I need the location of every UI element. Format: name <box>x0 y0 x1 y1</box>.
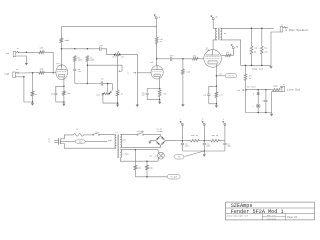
wire lineout bottom rail <box>246 112 272 114</box>
wire V1a plate <box>60 43 62 67</box>
capsule to bias point <box>225 74 236 78</box>
wire capsule out <box>85 140 107 142</box>
wiper arrow V1b grid <box>133 72 136 74</box>
wire fuse to switch <box>84 134 93 136</box>
capacitor C1 25uF bypass <box>54 86 57 102</box>
wire to V1a grid <box>44 72 56 74</box>
svg-text:100: 100 <box>138 167 141 169</box>
wire capsule diagonal <box>184 151 205 157</box>
ground lineout <box>270 113 273 117</box>
wire node A down <box>156 19 158 38</box>
junction cathode gnd <box>63 101 65 103</box>
label C1 <box>51 94 54 96</box>
node flag B+ OT <box>211 15 219 20</box>
tube V1b 12AX7 <box>151 66 163 79</box>
capacitor C5 25uF <box>146 93 149 100</box>
resistor R10 220k grid leak <box>182 59 185 105</box>
label R15 <box>264 48 268 54</box>
ground V1a cathode <box>62 102 65 106</box>
transformer T1 core <box>117 134 120 158</box>
wire V1b cath bottom <box>147 99 160 101</box>
wire HV top <box>120 133 137 135</box>
wire B+ to OT <box>213 20 217 29</box>
label R19 <box>150 167 153 169</box>
wire R15 down <box>261 54 263 65</box>
ground tone <box>116 105 119 108</box>
label D5 <box>253 94 254 96</box>
resistor R8 tap2 <box>86 56 89 62</box>
wire OT primary bottom <box>213 39 217 42</box>
title small date <box>266 217 276 220</box>
junction plate node A1 <box>61 48 63 50</box>
wiper arrow tone <box>118 70 122 72</box>
resistor R18 100 humdinger <box>134 150 137 177</box>
svg-text:22n: 22n <box>99 44 102 47</box>
node flag A2 <box>222 118 226 141</box>
label R11 <box>193 56 196 58</box>
capsule psu gnd <box>174 155 184 159</box>
wire after C2 <box>101 49 114 55</box>
wire R1 to grid node <box>44 52 53 72</box>
label C10 <box>207 143 211 147</box>
label VR1b <box>121 56 124 58</box>
svg-text:J1: J1 <box>16 48 18 50</box>
junction humdinger <box>146 176 148 178</box>
svg-text:1k5: 1k5 <box>67 93 70 95</box>
svg-text:10k 2W: 10k 2W <box>191 135 198 137</box>
label R18 <box>138 167 141 169</box>
capacitor C7 bypass <box>207 94 210 104</box>
svg-text:Line Out: Line Out <box>287 87 301 91</box>
ground R10 <box>181 104 184 107</box>
label C3 <box>78 69 81 73</box>
resistor R13 NFB <box>221 48 233 56</box>
wire lineout <box>246 89 273 91</box>
wire OT sec top <box>220 27 273 29</box>
wire heater bottom <box>120 158 158 162</box>
svg-text:C: C <box>180 119 181 121</box>
label R20 <box>191 135 198 137</box>
svg-text:22n: 22n <box>170 54 173 57</box>
capacitor C10 filter <box>203 141 206 151</box>
junction R3 bottom <box>32 101 34 103</box>
resistor R12 470 cathode <box>215 86 218 104</box>
label R21 <box>212 135 219 137</box>
wire V1a cathode <box>63 77 65 86</box>
label R6 22k <box>159 38 163 43</box>
ground V1b cathode <box>158 100 161 105</box>
junction J1 shorting contact <box>26 52 28 54</box>
node flag NFB <box>231 44 239 49</box>
ground 6V6 cathode <box>215 104 218 108</box>
label HV <box>122 140 126 142</box>
label V1b <box>150 61 153 64</box>
label R4 100k <box>64 39 70 42</box>
svg-text:120V: 120V <box>108 140 112 142</box>
wire mains live <box>60 135 73 139</box>
resistor R11 grid stopper <box>192 57 198 60</box>
junction psu1 <box>182 140 184 142</box>
svg-text:Page #1: Page #1 <box>287 216 297 219</box>
wire cathode bottom <box>56 101 64 103</box>
wire tone wiper <box>110 84 113 93</box>
wire OT sec bottom <box>220 40 240 66</box>
ground speaker return <box>269 66 272 69</box>
svg-text:5k6: 5k6 <box>193 56 196 58</box>
label C4 5n <box>101 77 103 80</box>
capsule mains <box>75 140 85 143</box>
pot VR1 volume <box>114 53 121 55</box>
diode D6 LED clamp <box>256 104 260 113</box>
label PT <box>115 131 118 134</box>
wire tone node down <box>107 84 109 93</box>
wire speaker sleeve <box>271 32 280 65</box>
wire heater top <box>120 149 158 151</box>
label R14 <box>254 48 257 54</box>
junction tone bottom <box>117 102 119 104</box>
label 120VAC <box>108 140 112 142</box>
capacitor C2 22n coupling <box>100 47 102 51</box>
label VR1a <box>112 56 117 59</box>
label C2 22n <box>99 44 102 47</box>
svg-text:1k5: 1k5 <box>163 93 166 95</box>
label J3 <box>281 25 283 27</box>
junction V1b cathode <box>159 88 161 90</box>
wire R14 down <box>251 54 253 65</box>
resistor R7 tap1 upper <box>73 56 76 62</box>
speaker jack J3 <box>280 27 288 32</box>
label 8 ohm speaker <box>285 28 309 32</box>
svg-text:IEC: IEC <box>79 141 82 143</box>
label wiper <box>128 73 129 75</box>
resistor R21 10k <box>211 139 220 142</box>
wire lower tone <box>75 83 101 85</box>
junction V1a cathode <box>63 86 65 88</box>
transformer T2 OT primary <box>216 28 217 40</box>
resistor R19 100 humdinger <box>146 161 149 177</box>
junction dummy tap <box>245 65 247 67</box>
wire tone feed <box>87 65 122 71</box>
wire 6V6 cath branch <box>209 86 217 94</box>
resistor R9 1k5 <box>158 89 161 100</box>
junction cath gnd2 <box>159 99 161 101</box>
resistor R3 1M grid leak <box>31 73 34 102</box>
svg-text:L: L <box>253 106 254 108</box>
wire mains return <box>60 144 116 149</box>
svg-text:25V: 25V <box>142 95 145 97</box>
svg-text:P5: P5 <box>178 157 180 159</box>
svg-text:25u: 25u <box>51 94 54 96</box>
title text SZEAmps <box>231 203 253 209</box>
title small drawn <box>226 214 248 217</box>
svg-text:J3: J3 <box>281 25 283 27</box>
resistor R15 dummy load <box>260 46 263 54</box>
svg-text:100k: 100k <box>78 59 82 61</box>
svg-text:Vol: Vol <box>121 56 124 58</box>
svg-text:D: D <box>253 94 254 96</box>
node flag B <box>202 119 206 141</box>
wire humdinger bottom <box>135 176 167 178</box>
wire tone pot down <box>103 94 118 103</box>
junction 6V6 gnd <box>216 103 218 105</box>
svg-text:220k: 220k <box>186 71 190 73</box>
capacitor C6 22n coupling <box>170 57 172 61</box>
svg-text:8R2: 8R2 <box>264 48 267 50</box>
fuse F1 2A <box>73 134 83 137</box>
label R8 <box>90 57 94 61</box>
junction psu gnd <box>204 150 206 152</box>
label dummy load <box>252 68 263 70</box>
resistor R6 22k dropping <box>155 37 158 43</box>
tube V2 6V6 <box>204 50 222 68</box>
label R5 1k5 <box>67 93 70 95</box>
svg-text:w: w <box>128 73 129 75</box>
wire lineout feed <box>245 65 247 73</box>
bridge rectifier D1-D4 <box>156 136 166 146</box>
node flag C <box>180 119 184 141</box>
junction tap2 <box>87 48 89 50</box>
wire lamp bottom <box>157 158 160 161</box>
junction lo2 <box>265 89 267 91</box>
wire V1a plate node <box>61 48 99 50</box>
wiper arrow level <box>242 89 245 91</box>
resistor R17 100R <box>273 89 281 91</box>
wire lineout sleeve <box>272 92 282 113</box>
resistor R2 68k <box>39 71 44 74</box>
wire bridge minus <box>150 140 156 142</box>
svg-text:to P5: to P5 <box>228 75 233 77</box>
wire 6V6 cath bottom <box>209 103 217 105</box>
resistor R5 1k5 cathode <box>63 86 66 102</box>
junction 6V6 cath <box>216 86 218 88</box>
label R9 1k5 <box>163 93 166 95</box>
svg-text:10n: 10n <box>262 101 265 103</box>
svg-text:100k: 100k <box>90 59 94 61</box>
label R12 470 <box>219 94 222 96</box>
wire plate to C6 <box>157 58 171 60</box>
wire J2 tip <box>21 72 39 74</box>
junction J2 tip <box>32 72 34 74</box>
svg-text:450V: 450V <box>185 146 189 148</box>
svg-text:10k 2W: 10k 2W <box>212 135 219 137</box>
wire psu gnd <box>203 151 205 154</box>
transformer T2 secondary <box>220 28 221 40</box>
wire B+ subrail <box>61 26 156 28</box>
label Line Out <box>287 87 301 91</box>
label cath wire <box>220 74 222 76</box>
svg-text:8 Ohm Speaker: 8 Ohm Speaker <box>285 28 309 32</box>
wire J2 sleeve <box>15 76 32 102</box>
svg-text:J2: J2 <box>16 69 18 71</box>
junction tap1 <box>74 48 76 50</box>
junction tap2 mid <box>87 64 89 66</box>
label C11 <box>227 143 231 147</box>
capacitor C11 filter <box>223 141 226 151</box>
ground psu <box>203 154 206 157</box>
title small page <box>287 216 297 219</box>
wire C4 to tone pot <box>103 83 113 85</box>
ground J1 <box>25 63 28 66</box>
svg-text:In: In <box>48 141 50 143</box>
label R10 220k <box>186 71 190 73</box>
label R17 <box>273 84 278 87</box>
resistor R20 10k <box>191 139 200 142</box>
label C5 <box>142 93 145 97</box>
svg-text:High: High <box>5 73 10 76</box>
transformer T1 primary <box>115 135 116 148</box>
wire 6V6 plate <box>212 40 214 50</box>
wiper arrow volume <box>117 51 119 53</box>
svg-text:P5 gnd: P5 gnd <box>171 176 177 178</box>
capacitor C9 filter <box>181 141 184 151</box>
wire R8 down <box>86 62 88 84</box>
transformer T1 6.3V secondary <box>120 150 121 158</box>
capacitor C3 tap1 series <box>73 62 76 84</box>
capsule heater gnd <box>167 174 180 179</box>
junction psu2 <box>204 140 206 142</box>
svg-text:22k: 22k <box>226 52 229 54</box>
svg-text:line level: line level <box>247 87 256 89</box>
svg-text:1N4007: 1N4007 <box>157 131 163 133</box>
junction cathode capsule tap <box>216 75 218 77</box>
svg-text:S1: S1 <box>95 132 97 134</box>
wire volume to V1b <box>120 55 137 105</box>
svg-text:450V: 450V <box>207 146 211 148</box>
capacitor C4 5n tone <box>101 81 103 85</box>
switch S1 power <box>93 132 100 136</box>
svg-text:220: 220 <box>254 48 257 50</box>
AC plug P1 <box>48 138 60 145</box>
label R3 1M <box>35 93 38 96</box>
wire B+ rail <box>182 140 225 142</box>
wire cathode branch <box>56 86 64 92</box>
svg-text:100: 100 <box>150 167 153 169</box>
capacitor C8 lineout <box>264 90 267 113</box>
svg-text:10k: 10k <box>237 90 240 92</box>
title small rev <box>267 214 276 217</box>
svg-text:p8: p8 <box>220 74 222 76</box>
junction heater2 <box>146 160 148 162</box>
resistor R14 dummy load <box>250 46 253 54</box>
svg-text:V1b: V1b <box>150 61 153 64</box>
junction lob1 <box>257 112 259 114</box>
resistor R16 4k7 <box>244 74 247 81</box>
resistor R1 68k <box>39 51 44 54</box>
label OT <box>224 32 227 35</box>
svg-text:PL1 #47: PL1 #47 <box>149 154 157 157</box>
transformer T1 HV secondary <box>120 134 121 147</box>
svg-text:22u: 22u <box>203 94 206 96</box>
svg-text:Drawn/Copyright SZE: Drawn/Copyright SZE <box>226 214 248 217</box>
wire V1b cathode <box>159 77 161 89</box>
wire cathode branch2 <box>147 89 160 93</box>
lamp PL1 pilot <box>158 152 165 159</box>
label 6.3V <box>123 153 129 156</box>
wire R6 to V1b plate <box>156 44 158 67</box>
label C9 <box>185 143 189 147</box>
junction spk1 <box>251 28 253 30</box>
wire dummy rail top tap2 <box>261 28 263 46</box>
resistor R4 100k plate load <box>60 27 63 43</box>
svg-text:dummy load: dummy load <box>252 68 263 70</box>
label D6 <box>253 106 254 108</box>
svg-text:470: 470 <box>219 94 222 96</box>
input jack J2 <box>5 69 21 78</box>
svg-text:100k: 100k <box>64 39 70 42</box>
diode D5 clamp <box>257 90 260 104</box>
svg-text:325V: 325V <box>122 140 126 142</box>
label V1a <box>56 62 60 65</box>
label C7 <box>203 94 206 96</box>
switch S2 standby <box>137 131 145 135</box>
label D1-D4 <box>157 129 163 133</box>
wire capsule tap <box>216 75 225 77</box>
junction spk2 <box>261 28 263 30</box>
wire 6V6 cathode <box>215 64 217 86</box>
svg-text:450V: 450V <box>227 146 231 148</box>
junction dummy1 <box>251 65 253 67</box>
node flag A <box>154 14 161 18</box>
wire standby to bridge <box>144 134 161 135</box>
pot VR3 tone <box>102 93 110 95</box>
svg-text:1M: 1M <box>121 93 123 95</box>
svg-text:Tone 1M: Tone 1M <box>96 94 103 96</box>
wire switch to PT <box>100 134 116 136</box>
label R1 68k <box>40 47 44 50</box>
junction grid leak <box>182 58 184 60</box>
junction V1b plate node <box>156 58 158 60</box>
wire bridge plus <box>165 140 182 142</box>
junction tone node <box>107 83 109 85</box>
wire lamp top <box>157 150 160 154</box>
label 1M <box>121 93 123 95</box>
label C6 22n <box>170 54 173 57</box>
transformer T2 core <box>217 28 220 40</box>
wire HV bottom <box>120 146 160 148</box>
svg-text:J4: J4 <box>283 84 285 86</box>
junction lob2 <box>265 112 267 114</box>
wire wiper to grid <box>137 72 151 74</box>
wire J1 sleeve <box>16 56 26 63</box>
svg-text:2n2: 2n2 <box>78 71 81 73</box>
pot VR2 level track <box>245 80 247 112</box>
volume pot track <box>116 54 119 105</box>
wire mains neutral <box>60 140 75 142</box>
wire psu bottom rail <box>182 150 225 152</box>
label PL1 <box>149 154 157 157</box>
label C8 <box>262 101 265 103</box>
label R2 68k <box>40 67 44 70</box>
input jack J1 <box>6 48 22 57</box>
wire J1 tip <box>21 51 39 53</box>
label F1 2A <box>76 128 79 131</box>
wire R11 to 6V6 <box>198 58 204 60</box>
label R7 <box>78 57 82 61</box>
junction lo1 <box>257 89 259 91</box>
wire C6 to grid <box>172 58 193 60</box>
wire dummy rail top tap1 <box>251 28 253 46</box>
svg-text:Standby: Standby <box>137 131 145 133</box>
junction dummy2 <box>261 65 263 67</box>
ground bridge <box>148 141 151 144</box>
svg-text:3/9/2013: 3/9/2013 <box>266 217 276 220</box>
ground R3 <box>31 102 34 106</box>
label VR2 <box>237 90 240 92</box>
label R13 NFB <box>226 52 229 54</box>
junction grid node V1a <box>52 72 54 74</box>
junction heater1 <box>135 149 137 151</box>
label R16 <box>249 76 252 80</box>
